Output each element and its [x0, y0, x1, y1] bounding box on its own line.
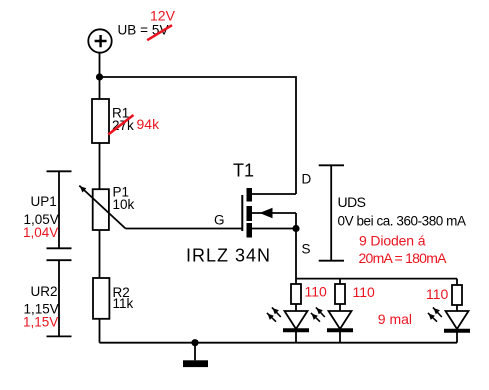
svg-text:110: 110 [353, 284, 376, 300]
svg-text:D: D [302, 172, 312, 187]
svg-text:1,15V: 1,15V [23, 315, 58, 330]
svg-text:9 Dioden á: 9 Dioden á [359, 233, 426, 249]
svg-text:S: S [302, 242, 311, 257]
svg-text:12V: 12V [150, 8, 176, 24]
svg-text:10k: 10k [113, 197, 135, 212]
svg-text:UR2: UR2 [31, 284, 58, 299]
svg-text:IRLZ 34N: IRLZ 34N [186, 245, 270, 265]
svg-text:0V bei ca. 360-380 mA: 0V bei ca. 360-380 mA [338, 213, 467, 228]
svg-text:UDS: UDS [338, 194, 367, 210]
svg-text:UB = 5V: UB = 5V [118, 23, 169, 38]
svg-text:110: 110 [426, 286, 449, 302]
svg-text:1,04V: 1,04V [23, 225, 58, 240]
svg-text:11k: 11k [113, 296, 134, 311]
svg-text:110: 110 [305, 284, 328, 300]
svg-text:27k: 27k [112, 118, 134, 133]
svg-text:UP1: UP1 [31, 194, 57, 209]
svg-text:G: G [214, 212, 225, 227]
svg-text:9 mal: 9 mal [378, 311, 412, 327]
svg-text:20mA = 180mA: 20mA = 180mA [359, 250, 448, 266]
svg-text:T1: T1 [233, 161, 254, 181]
svg-text:94k: 94k [137, 116, 161, 132]
